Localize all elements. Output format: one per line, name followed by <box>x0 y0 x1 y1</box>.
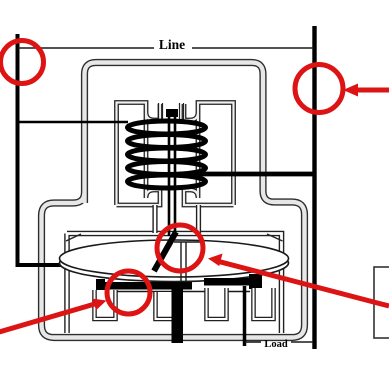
annotation circle A (top-left) <box>1 41 44 84</box>
leg 3 <box>207 288 227 319</box>
wire: feed to coil <box>18 121 128 124</box>
plunger rod (upper, tube: two lines) <box>169 112 175 236</box>
guide channel walls below bobbins <box>155 205 199 233</box>
leg 2 <box>156 292 177 319</box>
small contact stub left <box>96 279 105 291</box>
leg 1 <box>95 290 116 319</box>
disc lower thickness <box>60 245 289 282</box>
annotation arrow 2 (bottom-left, pointing up-right) <box>0 299 107 334</box>
annotation arrow 1 (right, pointing left) <box>343 84 389 97</box>
annotation circle D (left contact) <box>107 271 150 314</box>
bobbin right block <box>184 103 234 206</box>
wire: coil to right conductor <box>180 172 314 177</box>
svg-text:Load: Load <box>264 339 288 350</box>
callout box (cut off at right edge) <box>374 267 389 338</box>
wire: load tick left <box>245 341 261 343</box>
contact tip <box>249 274 262 289</box>
wire: load tick right <box>291 341 313 343</box>
annotation arrow 3 (from callout box, pointing up-left) <box>208 254 389 307</box>
plunger rod (lower) <box>172 285 184 343</box>
wire: top line right segment <box>192 47 314 49</box>
contact thin rail <box>102 291 250 293</box>
bobbin left block <box>117 103 161 206</box>
wire: top line left segment <box>18 47 154 49</box>
rod top cap <box>166 109 178 117</box>
solenoid coil <box>128 121 206 188</box>
wire: right conductor vertical <box>312 26 316 349</box>
disc <box>60 240 289 277</box>
annotation circle B (top-right) <box>295 65 343 113</box>
contact bar left <box>99 282 192 290</box>
inner compartment (lower chamber walls) <box>66 234 283 334</box>
trip lever diagonal <box>154 232 176 271</box>
contact bar right <box>204 278 251 286</box>
svg-text:Line: Line <box>159 37 185 52</box>
leg 4 <box>254 288 274 319</box>
wire: left conductor vertical + corner to contact <box>18 34 101 265</box>
latch bracket thin lines <box>174 242 202 282</box>
annotation circle C (center latch) <box>157 225 203 271</box>
rod guide thin lines <box>159 103 184 122</box>
housing outer shell (double outline) <box>42 63 305 338</box>
wire: load-side thin conductor <box>243 286 247 346</box>
